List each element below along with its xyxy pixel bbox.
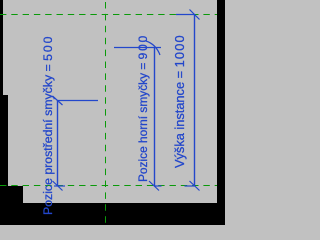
dimension 1 top tick xyxy=(53,96,63,105)
right black strip xyxy=(217,0,225,225)
dimension 3 label xyxy=(174,34,185,168)
dimension 2 bottom witness line xyxy=(154,185,162,187)
dimension 2 leader arc xyxy=(146,41,160,55)
dimension 1 bottom witness line xyxy=(54,185,65,187)
dimension 2 top witness line xyxy=(114,47,161,49)
dimension 1 label xyxy=(43,35,54,215)
dimension 3 (= 1000) vertical line xyxy=(194,14,196,186)
dimension 1 (= 500) vertical line xyxy=(57,100,59,186)
reference plane horizontal bottom (green dashed) xyxy=(0,185,217,187)
dimension 3 top witness line xyxy=(176,14,194,16)
dimension 1 bottom tick xyxy=(53,181,63,191)
dimension 1 top witness line xyxy=(58,100,99,102)
reference plane vertical (green dashed) xyxy=(105,0,107,225)
bottom-left black box xyxy=(0,186,23,204)
bottom black band xyxy=(0,203,225,225)
dimension 3 bottom tick xyxy=(190,181,200,191)
dimension 3 top tick xyxy=(190,10,200,20)
left thin black strip (top) xyxy=(0,0,3,95)
left black strip (lower) xyxy=(0,95,8,225)
dimension 3 bottom witness line xyxy=(185,185,195,187)
dimension 2 (= 900) vertical line xyxy=(154,48,156,186)
dimension 2 bottom tick xyxy=(149,181,159,191)
canvas background xyxy=(0,0,225,225)
dimension 2 label xyxy=(138,34,149,182)
reference plane horizontal top (green dashed) xyxy=(0,14,217,16)
